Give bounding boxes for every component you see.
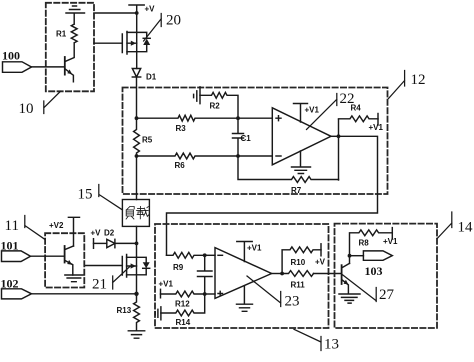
label 12 leader [389, 71, 426, 99]
resistor R11 [282, 271, 313, 290]
ground (sideways, left of R2) [194, 87, 200, 104]
resistor R4 [339, 104, 379, 122]
svg-text:R11: R11 [291, 281, 306, 290]
capacitor C2 [198, 255, 213, 294]
dashed box 10 [46, 3, 94, 92]
dashed box 14 [335, 224, 438, 328]
dashed box 11 [45, 233, 84, 287]
svg-text:D2: D2 [104, 229, 115, 238]
svg-text:+V1: +V1 [383, 237, 398, 246]
label 22 leader [307, 91, 355, 130]
node C1 top [236, 116, 240, 120]
svg-text:12: 12 [411, 72, 426, 88]
supply +V1 (op-amp 23) [237, 242, 262, 262]
wire box10 to +V node [94, 12, 137, 14]
wire D1 to R3 node [136, 77, 138, 118]
node top +V junction [135, 11, 139, 15]
svg-text:D1: D1 [146, 73, 157, 82]
svg-text:R5: R5 [142, 136, 153, 145]
label 13 leader [294, 329, 339, 352]
wire op-amp 22 output [331, 135, 339, 137]
resistor R7 [238, 156, 339, 195]
svg-text:10: 10 [19, 101, 34, 117]
terminal +V (D2) [91, 229, 102, 249]
diode D1 [132, 69, 156, 82]
svg-text:103: 103 [365, 264, 383, 278]
supply +V1 (op-amp 22) [294, 104, 320, 123]
svg-text:+V1: +V1 [305, 106, 320, 115]
label 23 leader [247, 276, 300, 310]
wire op23 output [272, 273, 283, 275]
svg-text:R3: R3 [176, 124, 187, 133]
svg-text:R10: R10 [291, 258, 306, 267]
node D2 [135, 242, 139, 246]
resistor R5 [134, 118, 153, 156]
node C1 bottom [236, 154, 240, 158]
svg-text:+V: +V [145, 5, 156, 14]
transistor Q27 [342, 256, 350, 294]
ground (top of box 10, inverted) [66, 6, 85, 24]
svg-text:13: 13 [324, 337, 339, 353]
svg-text:R4: R4 [351, 104, 362, 113]
resistor R8 [350, 230, 393, 256]
input flag 102 [1, 277, 32, 299]
capacitor C1 [233, 118, 252, 156]
terminal +V1 (R4) [369, 114, 384, 133]
svg-text:21: 21 [92, 277, 107, 293]
wire Q21 source to R13 node [136, 275, 138, 294]
node R12/C [203, 292, 207, 296]
label 15 leader [78, 185, 123, 210]
svg-text:+V1: +V1 [369, 123, 384, 132]
svg-text:R14: R14 [176, 318, 191, 327]
svg-text:+V: +V [315, 258, 326, 267]
svg-text:20: 20 [166, 13, 181, 29]
ground (op-amp 22) [292, 151, 311, 174]
dashed box 13 [155, 224, 329, 328]
op-amp U22 [272, 108, 331, 165]
svg-text:R13: R13 [117, 306, 132, 315]
resistor R6 [137, 153, 239, 170]
svg-text:+V1: +V1 [247, 244, 262, 253]
op-amp U23 [215, 248, 272, 299]
svg-text:+V: +V [91, 229, 102, 238]
resistor R3 [137, 115, 239, 133]
mosfet Q20 [122, 13, 150, 69]
label 10 leader [19, 91, 61, 117]
wire C1 bottom to op-amp - [238, 155, 272, 157]
label 27 leader [343, 275, 395, 303]
input flag 100 [2, 49, 32, 73]
terminal +V (R10) [315, 244, 326, 267]
svg-text:R6: R6 [175, 161, 186, 170]
label 21 leader [92, 266, 130, 292]
node op23 output [280, 272, 284, 276]
node R3/D1 [135, 116, 139, 120]
wire R6 node to load [136, 156, 138, 200]
transistor Q10 (in box 10) [65, 44, 74, 82]
dashed box 12 [123, 88, 388, 195]
wire C1 top to op-amp + [238, 117, 272, 119]
wire 101 to base [31, 255, 65, 257]
svg-text:102: 102 [1, 277, 19, 291]
resistor R2 [200, 92, 238, 118]
ground (op-amp 23) [237, 286, 253, 312]
ground (box 11) [65, 275, 83, 282]
wire to op-amp 23 plus [205, 293, 215, 295]
ground (R13) [128, 331, 144, 338]
wire gate of Q21 [84, 265, 122, 267]
resistor R13 [117, 294, 140, 331]
ground (Q27) [339, 294, 360, 303]
node op22 output [337, 134, 341, 138]
terminal +V1 (R8) [383, 228, 398, 246]
wire to op-amp 23 minus [205, 254, 215, 256]
svg-text:101: 101 [1, 239, 19, 253]
wire 102 to R13 node [32, 293, 137, 295]
svg-text:R12: R12 [175, 300, 190, 309]
node R13/102 [134, 292, 138, 296]
svg-text:R2: R2 [210, 102, 221, 111]
load box (negative-load 负载) [122, 200, 149, 227]
node R5/R6 [135, 154, 139, 158]
supply +V2 [49, 217, 80, 246]
supply +V (top) [129, 5, 155, 14]
label 20 leader [144, 13, 181, 42]
svg-text:+V1: +V1 [159, 280, 174, 289]
svg-text:27: 27 [379, 287, 395, 303]
resistor R12 [161, 291, 205, 308]
svg-text:R7: R7 [291, 186, 302, 195]
label 11 leader [5, 216, 45, 240]
wire R11 to Q27 base [314, 273, 342, 275]
wire output to R4/R7 vertical [338, 120, 340, 181]
svg-text:R9: R9 [173, 263, 184, 272]
input flag 101 [1, 239, 31, 262]
diode D2 [94, 229, 137, 248]
wire gate of Q20 [94, 42, 122, 44]
svg-text:11: 11 [5, 218, 19, 234]
resistor R9 [167, 252, 205, 272]
node R9/C [203, 253, 207, 257]
output flag 103 [363, 251, 392, 278]
ground (sideways, R14) [155, 307, 161, 320]
svg-text:15: 15 [78, 187, 93, 203]
transistor Q11 (in box 11) [65, 246, 74, 275]
resistor R14 [161, 294, 205, 327]
resistor R10 [282, 247, 321, 274]
svg-text:R1: R1 [56, 30, 67, 39]
svg-text:R8: R8 [359, 239, 370, 248]
wire 100 to base [32, 66, 65, 68]
terminal +V1 (R12) [159, 280, 174, 298]
svg-text:+V2: +V2 [49, 221, 64, 230]
label 14 leader [437, 212, 473, 239]
wire to output flag [350, 255, 364, 257]
svg-text:C1: C1 [241, 134, 252, 143]
svg-text:14: 14 [458, 220, 474, 236]
resistor R1 [56, 24, 77, 43]
mosfet Q21 [122, 255, 149, 278]
node R8/103 [348, 254, 352, 258]
wire output to lower section [167, 136, 378, 255]
svg-text:100: 100 [2, 49, 20, 63]
wire load to D2 node [136, 226, 138, 257]
svg-text:23: 23 [285, 294, 300, 310]
